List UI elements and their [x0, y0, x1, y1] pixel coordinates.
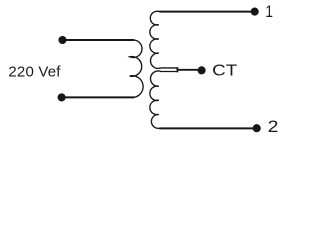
inductor secondary winding lower half (4 loops)	[150, 71, 178, 128]
wire secondary top to terminal 1	[159, 11, 254, 13]
svg-text:1: 1	[265, 3, 273, 21]
node primary top terminal	[58, 36, 66, 44]
wire primary top	[63, 39, 135, 41]
node primary bottom terminal	[58, 93, 66, 101]
wire primary bottom	[62, 96, 135, 98]
node CT	[198, 66, 206, 74]
svg-text:220 Vef: 220 Vef	[8, 63, 61, 80]
node terminal 1	[251, 8, 259, 16]
wire center tap to CT node	[177, 69, 198, 71]
wire center-tap bridge	[176, 67, 178, 72]
svg-text:2: 2	[268, 118, 279, 136]
wire secondary bottom to terminal 2	[159, 127, 256, 129]
inductor primary winding (3 loops)	[130, 40, 144, 97]
svg-text:CT: CT	[212, 63, 237, 80]
inductor secondary winding upper half (4 loops)	[150, 11, 178, 68]
node terminal 2	[253, 124, 261, 132]
